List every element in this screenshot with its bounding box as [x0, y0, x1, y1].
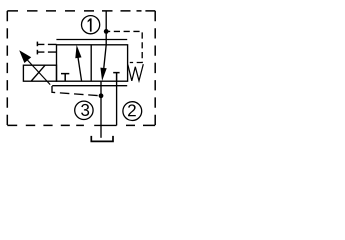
boundary dashed box top side: [7, 10, 155, 12]
valve body outline: [57, 45, 128, 81]
pilot line B dashed into left end (bottom): [37, 51, 56, 53]
tank symbol: [91, 136, 113, 142]
port 3 label circle: [75, 101, 93, 119]
right position blocked port T: [113, 73, 119, 82]
right position flow arrow shaft: [104, 45, 106, 68]
port 1 label digit: [88, 18, 92, 31]
left position blocked port T: [61, 74, 69, 82]
proportional solenoid box: [23, 65, 56, 81]
left position flow arrow shaft: [78, 56, 82, 81]
pilot line A end bar: [36, 42, 38, 47]
wire port 1 vertical: [105, 11, 107, 45]
port 3 label digit: [81, 104, 89, 116]
bottom rail: [52, 85, 127, 87]
port 2 label digit: [128, 104, 136, 116]
wire port 2 horizontal along boundary: [94, 124, 116, 126]
drain pilot dashed line from solenoid end to port 3: [52, 86, 101, 96]
proportional adjustment arrow head: [19, 50, 31, 63]
wire port 2 vertical: [116, 81, 118, 125]
pilot line A dashed into left end (top): [37, 43, 56, 45]
boundary dashed box bottom side: [7, 124, 155, 126]
boundary dashed box left side: [6, 11, 8, 126]
junction dot at port 1 pilot branch: [104, 29, 109, 34]
right position flow arrow head: [100, 68, 106, 81]
pilot line dashed from port 1 to spring end: [106, 31, 142, 62]
pilot line B end bar: [36, 50, 38, 55]
valve position divider: [90, 45, 92, 81]
junction dot at port 3 drain branch: [99, 93, 104, 98]
boundary dashed box right side: [154, 11, 156, 126]
wire port 3 vertical to tank: [100, 81, 102, 138]
top rail: [56, 39, 127, 41]
left position flow arrow head: [75, 45, 81, 58]
solenoid box diagonal: [31, 65, 45, 81]
spring W on right end: [128, 64, 144, 81]
port 2 label circle: [123, 102, 142, 121]
proportional adjustment arrow shaft: [26, 59, 50, 85]
port 1 label circle: [82, 16, 100, 34]
